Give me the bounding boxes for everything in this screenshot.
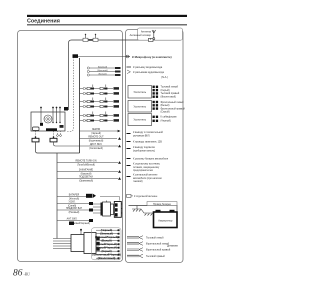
svg-text:ЗАЖИГАНИЕ: ЗАЖИГАНИЕ <box>79 169 94 172</box>
antenna mast symbol <box>152 30 156 40</box>
svg-text:К разъемам аудиовыхода: К разъемам аудиовыхода <box>133 70 164 74</box>
amp3 speaker rows <box>153 116 177 123</box>
svg-text:Усилитель: Усилитель <box>134 118 147 122</box>
svg-text:Провод батареи: Провод батареи <box>153 203 172 206</box>
fuse right <box>50 137 57 142</box>
mic legend row <box>126 55 171 59</box>
harness spine <box>79 58 81 153</box>
wire av output 2 <box>87 70 120 72</box>
svg-text:таковой): таковой) <box>133 180 143 183</box>
ISO plug body 2 <box>84 233 96 254</box>
svg-text:К разъему видеовыхода: К разъему видеовыхода <box>133 65 163 69</box>
svg-text:К проводу зажигания, 12В: К проводу зажигания, 12В <box>133 140 162 143</box>
svg-text:(Коричневый): (Коричневый) <box>89 140 104 143</box>
wire row y196.5 ground with screw <box>57 194 96 201</box>
speaker rows bottom <box>127 236 179 258</box>
svg-text:(Черный): (Черный) <box>91 132 101 135</box>
svg-text:К отдельной антенне: К отдельной антенне <box>134 195 158 198</box>
svg-text:(Фиолетовый): (Фиолетовый) <box>161 96 177 99</box>
legend dash row 6 <box>127 174 163 183</box>
amplifier box 1 <box>128 86 152 99</box>
fuse holder drop right (dashed) <box>53 131 55 138</box>
wire row y203.5 <box>57 202 93 208</box>
ISO plug body 1 <box>71 235 84 252</box>
wire av output 3 <box>87 74 120 76</box>
svg-text:Антенный штекер: Антенный штекер <box>130 33 152 37</box>
svg-text:Соединения: Соединения <box>27 19 60 25</box>
tick marks row B <box>92 98 94 101</box>
svg-text:К сабвуферам: К сабвуферам <box>161 116 177 119</box>
wire row y178.5 <box>57 176 121 183</box>
legend dash row 5 <box>127 163 161 172</box>
svg-text:(Фиолетовый): (Фиолетовый) <box>98 257 116 260</box>
amp1 speaker rows <box>153 86 180 99</box>
svg-text:предохранителем: предохранителем <box>133 169 153 172</box>
antenna label callout box <box>138 28 183 40</box>
ribbon wires to ISO plug <box>53 239 71 249</box>
svg-text:БАТАРЕЯ: БАТАРЕЯ <box>69 194 80 197</box>
wire row y220.5 antenna on <box>57 218 93 226</box>
speaker lead rows <box>92 229 120 260</box>
RCA pair row A line 2 <box>80 92 120 95</box>
svg-text:УСИЛ.: УСИЛ. <box>69 202 76 204</box>
dashed drops small pins under unit <box>57 131 62 136</box>
svg-text:(Голубой/Белый): (Голубой/Белый) <box>77 164 95 167</box>
svg-text:Фронтальный правый: Фронтальный правый <box>146 248 171 251</box>
antenna plug extension connector 2 <box>93 34 98 42</box>
svg-text:86: 86 <box>13 269 23 279</box>
speaker lead list outline <box>92 228 122 260</box>
wire row y210 <box>57 207 93 214</box>
svg-text:К разъему батареи автомобиля: К разъему батареи автомобиля <box>133 157 169 160</box>
wire row y146 label <box>89 144 121 150</box>
svg-text:(Красный): (Красный) <box>81 173 92 176</box>
svg-text:(Оранжевый): (Оранжевый) <box>79 180 93 183</box>
svg-text:Аккумулятор: Аккумулятор <box>158 220 173 223</box>
left diagram panel box <box>18 31 123 262</box>
svg-text:Антенна: Антенна <box>141 30 152 34</box>
wire row y162.5 <box>57 161 121 167</box>
power bus <box>56 153 58 239</box>
svg-text:REMOTE OUT: REMOTE OUT <box>88 137 104 139</box>
antenna label <box>130 30 152 38</box>
wire row y171.5 <box>57 169 121 176</box>
legend dash row 2 <box>127 140 163 143</box>
wire av output 1 <box>87 67 120 69</box>
svg-text:(Серый): (Серый) <box>161 110 170 113</box>
RCA pair row B line 2 <box>80 105 120 108</box>
amplifier box 3 <box>128 114 152 126</box>
wire antenna lead in right panel <box>122 39 151 41</box>
wire antenna lead vertical+horizontal <box>69 40 123 110</box>
antenna receptacle on rear panel <box>73 54 79 58</box>
legend row video out <box>127 65 163 69</box>
amplifier box 2 <box>128 101 152 113</box>
fuse left <box>32 137 39 142</box>
svg-text:REMOTE TURN-ON: REMOTE TURN-ON <box>75 161 96 163</box>
battery wire with label box <box>129 202 178 212</box>
svg-text:Усилитель: Усилитель <box>134 90 147 94</box>
RCA pair row B line 1 <box>80 100 120 103</box>
svg-text:АНТ. ВКЛ.: АНТ. ВКЛ. <box>67 218 78 221</box>
labels on AV wires <box>95 66 110 76</box>
black cable segment between antenna plugs <box>88 39 93 41</box>
svg-text:Тыловой правый: Тыловой правый <box>146 255 165 258</box>
right legend panel box <box>126 30 184 263</box>
svg-text:(Желтый): (Желтый) <box>69 198 79 201</box>
vehicle ISO connector pair <box>93 197 122 218</box>
antenna plug at wire end <box>149 38 154 41</box>
svg-text:(приборная панель): (приборная панель) <box>133 149 155 152</box>
wire from right fuse to row <box>54 142 119 146</box>
svg-text:(N.A.): (N.A.) <box>161 75 168 79</box>
title rule thin <box>27 23 187 26</box>
RCA pair row A line 1 <box>80 87 120 90</box>
svg-text:Усилитель: Усилитель <box>134 105 147 109</box>
antenna plug extension connector 1 <box>83 34 88 42</box>
svg-text:(Черный): (Черный) <box>161 120 171 123</box>
svg-text:ПОДСВЕТКА: ПОДСВЕТКА <box>79 176 93 179</box>
legend connector row antenna <box>127 195 158 199</box>
svg-text:К Микрофону (в комплекте): К Микрофону (в комплекте) <box>132 55 172 59</box>
page number <box>13 269 30 279</box>
wire mic lead <box>78 55 127 58</box>
RCA pair row C line 1 <box>80 114 120 117</box>
svg-text:(Розовый): (Розовый) <box>69 211 80 214</box>
chassis ground hatch <box>132 206 153 216</box>
tick marks row A <box>92 85 94 88</box>
battery <box>154 210 178 228</box>
rear panel dashed outline <box>66 57 74 132</box>
svg-text:рычажком ВКЛ.: рычажком ВКЛ. <box>133 134 150 137</box>
legend row audio out <box>127 70 164 74</box>
ISO plug pins <box>97 237 100 241</box>
legend dash row 4 <box>127 157 169 160</box>
wire row y131 <box>80 129 121 135</box>
svg-text:Тыловой левый: Тыловой левый <box>146 236 164 239</box>
legend dash row 1 <box>127 131 164 137</box>
legend dash row 3 <box>127 146 156 152</box>
svg-text:(Салатовый): (Салатовый) <box>89 147 103 150</box>
svg-text:ПРЕДОХР. BAT: ПРЕДОХР. BAT <box>66 207 83 210</box>
head unit rear view <box>31 107 68 131</box>
fuse holder drop left (dashed) <box>35 131 37 138</box>
RCA pair row C line 2 <box>80 119 120 122</box>
svg-text:Динамики: Динамики <box>167 245 179 248</box>
svg-text:ДИСТ. ВКЛ.: ДИСТ. ВКЛ. <box>90 144 103 146</box>
plug locating pin <box>80 229 82 235</box>
svg-text:ЗЕМЛЯ: ЗЕМЛЯ <box>92 129 100 131</box>
wire from left fuse to bus <box>36 142 80 153</box>
title rule thick <box>27 15 187 17</box>
svg-text:-RU: -RU <box>24 273 31 277</box>
tick marks row C <box>92 112 94 115</box>
wire row y138.5 <box>80 137 122 143</box>
amp2 speaker rows <box>153 101 186 114</box>
